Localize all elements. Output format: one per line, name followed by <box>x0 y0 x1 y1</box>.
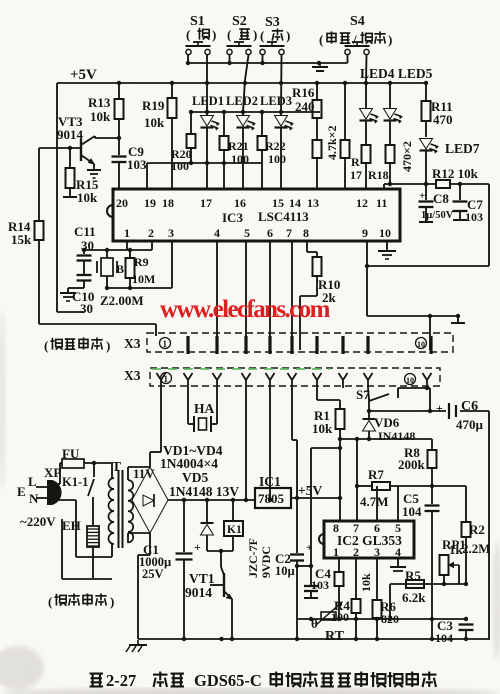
resistor R2 <box>462 486 491 584</box>
pin 7 IC2 <box>353 521 359 535</box>
node R12 ends <box>424 182 462 186</box>
wire L to fuse <box>56 463 62 484</box>
node LED cathode bus <box>189 161 226 165</box>
diode VD6 <box>363 399 416 443</box>
wire fork4 drop <box>245 388 247 498</box>
LED LED1 <box>201 112 220 163</box>
switch S7 <box>356 386 430 411</box>
pin 6 IC3 <box>267 226 273 240</box>
pin X3 row2 socket <box>364 373 373 388</box>
wire pin7 drop <box>291 241 293 350</box>
resistor R4 <box>331 558 350 624</box>
LED LED5 <box>384 83 403 145</box>
node 13V rail <box>182 498 272 502</box>
label X3 row2 <box>124 368 141 383</box>
ground switch-common <box>312 63 328 71</box>
pin 5 IC2 <box>395 521 401 535</box>
node ground bus <box>182 637 468 641</box>
wire IC2 pin8 supply <box>338 439 342 521</box>
switch S1 (cook rice) <box>186 14 217 55</box>
wire fork6 drop <box>292 388 297 498</box>
wire S2 output drop <box>243 55 249 112</box>
pin 2 IC2 <box>353 545 359 559</box>
wire secondary bottom <box>128 533 150 543</box>
capacitor C7 <box>453 184 484 224</box>
label X3 row1 <box>124 336 141 351</box>
pin 5 IC3 <box>244 226 250 240</box>
label E <box>17 484 26 499</box>
wire secondary top <box>128 467 150 480</box>
svg-text:GDS65-C: GDS65-C <box>194 671 262 690</box>
pin 20 IC3 <box>116 196 128 210</box>
LED LED2 <box>237 112 256 189</box>
svg-text:www.elecfans.com: www.elecfans.com <box>160 296 331 323</box>
pin X3 row1 <box>366 336 369 354</box>
resistor R17 <box>350 145 371 189</box>
ground pin9 stub <box>451 316 465 323</box>
connector X3 row2 box <box>150 368 440 386</box>
wire IC2 pin7 up <box>356 486 358 521</box>
wire pin1 pin2 to xtal <box>84 241 152 250</box>
ground xtal <box>60 288 76 301</box>
switch S3 (soup) <box>260 15 291 55</box>
node on +5V rail <box>205 81 209 85</box>
resistor R20 <box>171 112 196 173</box>
wire S4 output drop <box>365 55 368 83</box>
pin X3 row1 <box>268 336 271 354</box>
potentiometer RP1 <box>440 537 466 584</box>
op-amp IC3 LSC4113 box <box>107 189 400 241</box>
wire C6 rail <box>369 410 489 412</box>
wire fork9 drop <box>428 409 432 413</box>
wire switch common rail <box>188 55 348 63</box>
scan smudge bottom <box>0 688 500 694</box>
node on +5V rail <box>170 81 174 85</box>
pin X3 row2 socket <box>266 373 275 388</box>
wire pot-bottom box <box>62 519 112 579</box>
thermistor RT <box>297 602 466 644</box>
node R13 bottom <box>117 136 121 140</box>
pin 10 IC3 <box>379 226 391 240</box>
capacitor C10 <box>68 275 94 316</box>
pin 4 IC3 <box>214 226 220 240</box>
label 1N4148 13V <box>169 484 239 499</box>
pin 8 IC2 <box>333 521 339 535</box>
transformer T <box>109 459 134 548</box>
wire 13V rail <box>168 499 255 501</box>
wire +5V rail <box>57 83 428 146</box>
wire IC2 pin5 up <box>397 486 399 521</box>
pin 16 IC3 <box>234 196 246 210</box>
wire xtal bottom bus <box>107 241 172 288</box>
label 11V <box>133 466 155 481</box>
regulator IC1 7805 <box>255 474 340 508</box>
pin 17 IC3 <box>200 196 212 210</box>
label lid circuit <box>44 337 110 353</box>
pin 8 IC3 <box>303 226 309 240</box>
node on +5V rail <box>315 81 319 85</box>
wire pin9 net <box>365 241 489 350</box>
resistor 4.7k a <box>313 140 322 189</box>
pin 14 IC3 <box>289 196 301 210</box>
ground VT3 emitter <box>87 170 101 178</box>
node on +5V rail <box>279 81 283 85</box>
pin X3 row2 socket <box>157 373 166 388</box>
wire pin5 drop <box>245 241 247 350</box>
pin 10 X3 row1 <box>416 336 432 354</box>
watermark green artifacts <box>152 368 330 370</box>
resistor R12 <box>384 166 489 189</box>
wire fork5 drop <box>269 388 271 498</box>
capacitor C3 <box>435 618 474 645</box>
resistor R21 <box>220 112 250 189</box>
wire primary top <box>111 463 113 478</box>
resistor R19 <box>142 83 177 189</box>
node on +5V rail <box>424 81 428 85</box>
resistor R7 <box>355 437 466 509</box>
switch K1-1 relay contact <box>62 463 94 526</box>
wire RP1 bottom rail <box>390 582 468 586</box>
wire bridge top from X3 <box>150 388 161 467</box>
resistor R6 <box>373 558 400 639</box>
op-amp IC2 GL353 box <box>319 521 414 558</box>
capacitor C8 <box>419 184 454 222</box>
heater EH <box>62 518 99 578</box>
pin X3 row1 <box>315 336 318 354</box>
resistor R22 <box>258 112 287 189</box>
node RT rail <box>309 617 468 621</box>
svg-text:2-27: 2-27 <box>106 671 136 690</box>
pin X3 row2 socket <box>313 373 322 388</box>
LED LED3 <box>275 112 294 189</box>
pin X3 row1 <box>215 336 218 354</box>
caption title <box>90 671 437 690</box>
diode VD5 flyback <box>201 500 214 551</box>
pin X3 row1 <box>341 336 344 354</box>
pin 1 IC2 <box>333 545 339 559</box>
pin 3 IC2 <box>374 545 380 559</box>
wire lid box bottom <box>39 324 156 336</box>
resistor 4.7k b <box>341 83 350 189</box>
wire LED anode rail <box>191 111 320 113</box>
wire C4 node left <box>297 565 311 567</box>
pin 3 IC3 <box>168 226 174 240</box>
node on +5V rail <box>388 81 392 85</box>
label LED3 <box>260 94 292 108</box>
LED LED7 <box>420 139 480 185</box>
capacitor C9 <box>112 138 148 189</box>
pin X3 row2 socket <box>288 373 297 388</box>
pin 2 IC3 <box>148 226 154 240</box>
wire R1 to sensor col <box>311 446 342 566</box>
pin 1 X3 row1 <box>160 338 171 350</box>
capacitor C4 <box>304 564 331 598</box>
resistor R3 <box>352 558 374 639</box>
pin X3 row1 <box>186 336 189 354</box>
wire right column <box>488 411 490 639</box>
label VD1~VD4 <box>163 443 223 458</box>
node xtal bottom <box>105 286 132 290</box>
resistor R13 <box>88 83 124 138</box>
wire VT3 base net <box>39 146 81 150</box>
node on +5V rail <box>343 81 347 85</box>
wire right gnd drop <box>488 184 490 266</box>
label L <box>28 474 37 489</box>
fuse FU <box>62 446 112 468</box>
pin 4 IC2 <box>395 545 401 559</box>
capacitor C6 <box>436 399 484 432</box>
switch S4 (keep-warm/clear) <box>319 14 392 55</box>
wire bridge bottom <box>138 533 150 639</box>
pin 1 IC3 <box>124 226 130 240</box>
LED LED4 <box>360 83 379 145</box>
ground IC2 pin4 <box>390 558 406 571</box>
relay K1 coil <box>224 500 243 551</box>
transistor VT3 <box>57 114 119 170</box>
resistor R16 <box>292 83 322 140</box>
node fuse out <box>92 461 96 465</box>
capacitor C5 <box>402 486 440 639</box>
node LED rail <box>189 110 283 114</box>
node R7 rail <box>355 484 434 488</box>
pin 10 X3 row2 <box>405 374 416 386</box>
label 470 x2 <box>400 141 414 172</box>
label JZC-7F <box>246 538 260 578</box>
capacitor C11 <box>74 224 96 274</box>
resistor R18 <box>368 145 395 186</box>
label LED2 <box>226 94 258 108</box>
node on +5V rail <box>364 81 368 85</box>
node on +5V rail <box>243 81 247 85</box>
label N <box>29 491 39 506</box>
switch S2 (porridge) <box>227 14 258 55</box>
pin X3 row2 socket <box>339 373 348 388</box>
wire N drop <box>56 500 112 557</box>
watermark elecfans <box>160 296 331 323</box>
resistor R10 <box>300 241 340 350</box>
wire IC2 pin6 up <box>376 486 378 521</box>
pin X3 row2 socket <box>184 373 193 388</box>
pin 7 IC3 <box>286 226 292 240</box>
resistor R11 <box>422 83 453 137</box>
pin 1 X3 row2 <box>161 373 172 385</box>
plug XP <box>36 465 61 504</box>
pin 9 IC3 <box>362 226 368 240</box>
resistor R1 <box>312 388 345 439</box>
pin 18 IC3 <box>162 196 174 210</box>
pin X3 row1 <box>290 336 293 354</box>
resistor R9 <box>126 250 156 288</box>
scan smudge left <box>0 310 6 490</box>
scan smudge right <box>492 540 500 660</box>
pin 12 IC3 <box>356 196 368 210</box>
wire S1 output drop <box>206 55 208 112</box>
resistor R15 <box>63 148 99 205</box>
resistor R8 <box>398 439 437 486</box>
pin X3 row2 socket <box>423 373 432 388</box>
label pot-bottom circuit <box>48 593 114 609</box>
crystal B Z2.00M <box>97 250 124 288</box>
pin X3 row2 socket <box>242 373 251 388</box>
pin 11 IC3 <box>376 196 387 210</box>
label LED4 LED5 <box>360 66 433 81</box>
ground main <box>126 640 147 652</box>
wire left +5V drop <box>57 146 84 312</box>
wire S3 output drop <box>280 55 283 112</box>
label Z2.00M <box>100 293 144 308</box>
label ~220V <box>20 514 56 529</box>
capacitor C1 <box>139 500 201 639</box>
label VD5 <box>182 470 208 485</box>
rectifier VD1-VD4 bridge <box>132 467 168 533</box>
pin 19 IC3 <box>144 196 156 210</box>
label 1N4004x4 <box>160 456 218 471</box>
pin 13 IC3 <box>307 196 319 210</box>
node S1 common <box>186 61 321 65</box>
node on +5V rail <box>117 81 121 85</box>
connector X3 row1 box <box>147 333 453 352</box>
wire pin4 drop <box>216 241 218 350</box>
label 4.7k x2 <box>325 125 339 160</box>
pin X3 row2 socket <box>213 373 222 388</box>
power rail +5V label <box>70 67 97 83</box>
label +5V out <box>295 483 323 500</box>
pin 6 IC2 <box>374 521 380 535</box>
wire bus to IC pins <box>147 163 207 189</box>
wire K1 bottom <box>207 549 233 553</box>
scan smudge corner <box>0 646 44 690</box>
pin X3 row1 <box>244 336 247 354</box>
node R1 bottom rail <box>338 437 432 441</box>
resistor R5 <box>402 568 426 605</box>
transistor VT1 <box>185 551 232 639</box>
label 9VDC <box>259 546 273 578</box>
pin 15 IC3 <box>272 196 284 210</box>
wire LED cathode bus <box>185 162 262 164</box>
wire S7 right drop <box>367 409 371 413</box>
resistor R14 <box>8 148 44 324</box>
wire R5 left drop <box>389 584 391 619</box>
wire pin6 drop <box>269 241 271 350</box>
wire ground bus <box>138 638 490 640</box>
buzzer HA <box>188 388 217 432</box>
label LED1 <box>192 94 224 108</box>
ground pin10 <box>378 241 396 259</box>
node xtal top <box>82 248 132 252</box>
capacitor C2 <box>275 498 312 639</box>
